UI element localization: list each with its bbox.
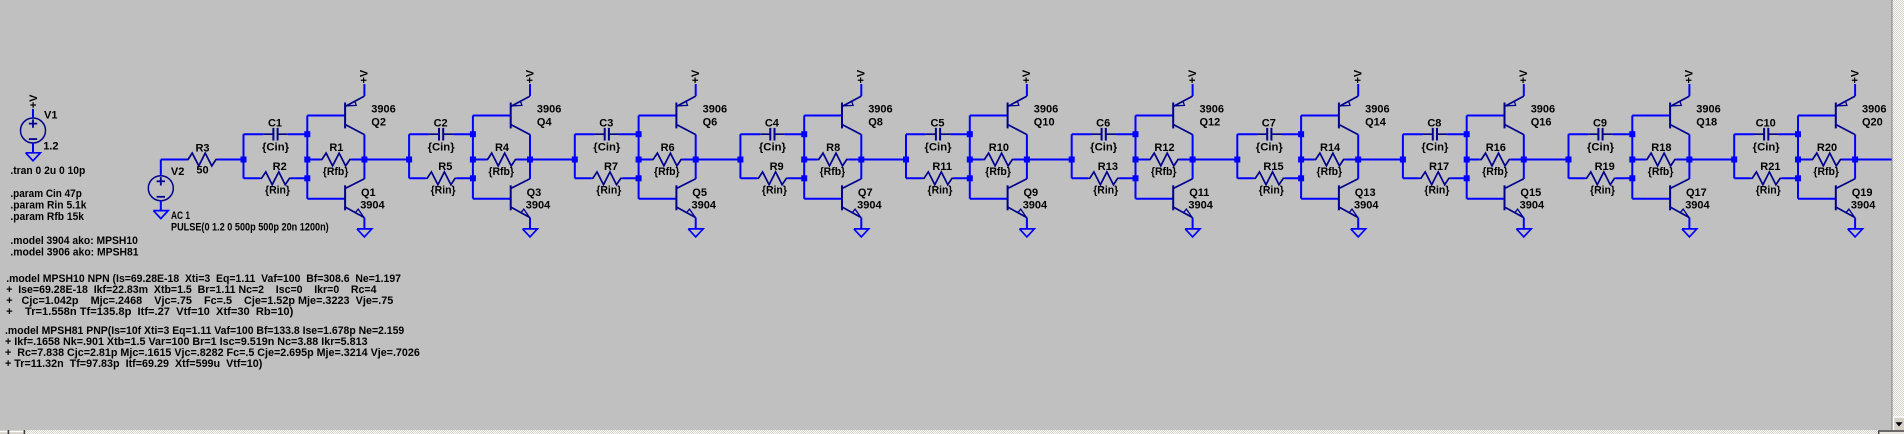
- svg-text:{Rfb}: {Rfb}: [820, 166, 846, 178]
- svg-text:3906: 3906: [868, 103, 892, 115]
- svg-text:+V: +V: [1849, 69, 1861, 83]
- svg-text:+V: +V: [1353, 69, 1365, 83]
- svg-text:{Cin}: {Cin}: [925, 141, 953, 153]
- svg-text:R8: R8: [826, 142, 840, 154]
- svg-text:R12: R12: [1154, 142, 1174, 154]
- svg-text:{Rin}: {Rin}: [1093, 184, 1119, 196]
- svg-text:C9: C9: [1593, 118, 1607, 130]
- svg-text:Q13: Q13: [1355, 187, 1376, 199]
- svg-text:C1: C1: [268, 118, 282, 130]
- svg-text:{Cin}: {Cin}: [1421, 141, 1449, 153]
- svg-text:+V: +V: [1021, 69, 1033, 83]
- svg-text:{Cin}: {Cin}: [262, 141, 290, 153]
- svg-text:3904: 3904: [857, 199, 882, 211]
- svg-text:{Rin}: {Rin}: [1590, 184, 1616, 196]
- svg-text:R13: R13: [1098, 161, 1118, 173]
- svg-text:R14: R14: [1320, 142, 1341, 154]
- svg-text:+V: +V: [1684, 69, 1696, 83]
- svg-text:3904: 3904: [1520, 199, 1545, 211]
- svg-text:R11: R11: [932, 161, 952, 173]
- svg-text:.model 3904 ako: MPSH10: .model 3904 ako: MPSH10: [10, 235, 137, 247]
- svg-text:+V: +V: [28, 94, 40, 108]
- svg-text:Q4: Q4: [537, 116, 553, 128]
- svg-text:Q18: Q18: [1696, 116, 1717, 128]
- svg-text:{Cin}: {Cin}: [593, 141, 621, 153]
- svg-text:C3: C3: [599, 118, 613, 130]
- svg-text:{Rfb}: {Rfb}: [1482, 166, 1508, 178]
- svg-text:Q8: Q8: [868, 116, 883, 128]
- svg-text:.model 3906 ako: MPSH81: .model 3906 ako: MPSH81: [10, 247, 138, 259]
- svg-text:{Rin}: {Rin}: [596, 184, 622, 196]
- svg-text:3906: 3906: [1531, 103, 1555, 115]
- svg-text:{Rin}: {Rin}: [762, 184, 788, 196]
- svg-text:Q19: Q19: [1852, 187, 1873, 199]
- svg-text:Q16: Q16: [1531, 116, 1552, 128]
- svg-text:{Cin}: {Cin}: [1753, 141, 1781, 153]
- svg-text:.tran 0 2u 0 10p: .tran 0 2u 0 10p: [10, 165, 85, 177]
- svg-text:C5: C5: [930, 118, 944, 130]
- svg-text:.param Rin 5.1k: .param Rin 5.1k: [10, 199, 87, 211]
- svg-text:{Rfb}: {Rfb}: [1813, 166, 1839, 178]
- svg-text:C2: C2: [434, 118, 448, 130]
- svg-text:R10: R10: [989, 142, 1009, 154]
- svg-text:R3: R3: [195, 143, 209, 155]
- svg-text:+ Tr=1.558n Tf=135.8p Itf=: + Tr=1.558n Tf=135.8p Itf=.27 Vtf=10 Xtf…: [6, 306, 293, 318]
- svg-text:{Cin}: {Cin}: [1090, 141, 1118, 153]
- svg-text:.param Rfb 15k: .param Rfb 15k: [10, 211, 84, 223]
- svg-text:R15: R15: [1263, 161, 1283, 173]
- svg-text:Q3: Q3: [527, 187, 542, 199]
- svg-text:{Cin}: {Cin}: [428, 141, 456, 153]
- svg-text:{Rfb}: {Rfb}: [323, 166, 349, 178]
- svg-text:R4: R4: [495, 142, 510, 154]
- svg-text:{Rin}: {Rin}: [1259, 184, 1285, 196]
- svg-text:R19: R19: [1595, 161, 1615, 173]
- svg-text:R5: R5: [438, 161, 452, 173]
- svg-text:{Rin}: {Rin}: [928, 184, 954, 196]
- svg-text:{Rfb}: {Rfb}: [1648, 166, 1674, 178]
- svg-text:Q7: Q7: [858, 187, 873, 199]
- svg-text:Q2: Q2: [371, 116, 386, 128]
- svg-text:{Cin}: {Cin}: [759, 141, 787, 153]
- svg-text:3904: 3904: [1188, 199, 1213, 211]
- svg-text:+V: +V: [359, 69, 371, 83]
- svg-text:{Rfb}: {Rfb}: [1151, 166, 1177, 178]
- svg-text:Q9: Q9: [1024, 187, 1039, 199]
- svg-text:1.2: 1.2: [43, 141, 58, 153]
- svg-text:R2: R2: [273, 161, 287, 173]
- svg-text:+V: +V: [1187, 69, 1199, 83]
- svg-text:{Rin}: {Rin}: [265, 184, 291, 196]
- svg-text:{Rfb}: {Rfb}: [488, 166, 514, 178]
- svg-text:Q5: Q5: [692, 187, 707, 199]
- svg-text:C6: C6: [1096, 118, 1110, 130]
- svg-text:Q20: Q20: [1862, 116, 1883, 128]
- svg-text:3906: 3906: [537, 103, 561, 115]
- svg-text:Q10: Q10: [1034, 116, 1055, 128]
- svg-text:50: 50: [196, 164, 208, 176]
- svg-text:3906: 3906: [703, 103, 727, 115]
- svg-text:3904: 3904: [1354, 199, 1379, 211]
- svg-text:+ Ikf=.1658 Nk=.901 Xtb=1.5 Va: + Ikf=.1658 Nk=.901 Xtb=1.5 Var=100 Br=1…: [5, 336, 368, 348]
- svg-text:Q12: Q12: [1200, 116, 1221, 128]
- svg-text:C4: C4: [765, 118, 780, 130]
- svg-text:R9: R9: [770, 161, 784, 173]
- svg-text:+V: +V: [690, 69, 702, 83]
- svg-text:C7: C7: [1262, 118, 1276, 130]
- svg-text:3906: 3906: [1365, 103, 1389, 115]
- svg-text:+V: +V: [1518, 69, 1530, 83]
- svg-text:AC 1: AC 1: [171, 210, 190, 222]
- svg-text:R1: R1: [329, 142, 343, 154]
- svg-text:C8: C8: [1427, 118, 1441, 130]
- svg-text:+ Tr=11.32n Tf=97.83p Itf=69: + Tr=11.32n Tf=97.83p Itf=69.29 Xtf=599u…: [5, 358, 263, 370]
- svg-text:R21: R21: [1760, 161, 1780, 173]
- svg-text:Q6: Q6: [703, 116, 718, 128]
- svg-text:{Rfb}: {Rfb}: [654, 166, 680, 178]
- svg-text:3904: 3904: [360, 199, 385, 211]
- svg-text:3904: 3904: [526, 199, 551, 211]
- svg-text:R7: R7: [604, 161, 618, 173]
- svg-text:3906: 3906: [1696, 103, 1720, 115]
- svg-text:Q11: Q11: [1189, 187, 1209, 199]
- svg-text:+V: +V: [856, 69, 868, 83]
- svg-text:Q1: Q1: [361, 187, 376, 199]
- svg-text:{Rfb}: {Rfb}: [1317, 166, 1343, 178]
- svg-text:3904: 3904: [1023, 199, 1048, 211]
- svg-text:3904: 3904: [1685, 199, 1710, 211]
- svg-text:3906: 3906: [1200, 103, 1224, 115]
- svg-text:{Cin}: {Cin}: [1256, 141, 1284, 153]
- svg-text:PULSE(0 1.2 0 500p 500p 20n 12: PULSE(0 1.2 0 500p 500p 20n 1200n): [171, 221, 329, 233]
- svg-text:{Rin}: {Rin}: [1756, 184, 1782, 196]
- svg-text:.param Cin 47p: .param Cin 47p: [10, 188, 82, 200]
- svg-text:V2: V2: [171, 166, 184, 178]
- svg-text:C10: C10: [1756, 118, 1776, 130]
- svg-text:3904: 3904: [692, 199, 717, 211]
- svg-text:V1: V1: [44, 110, 57, 122]
- svg-text:R17: R17: [1429, 161, 1449, 173]
- svg-text:R16: R16: [1486, 142, 1506, 154]
- svg-text:{Cin}: {Cin}: [1587, 141, 1615, 153]
- svg-text:{Rin}: {Rin}: [1424, 184, 1450, 196]
- svg-text:3906: 3906: [371, 103, 395, 115]
- svg-text:3906: 3906: [1034, 103, 1058, 115]
- svg-text:3906: 3906: [1862, 103, 1886, 115]
- svg-text:{Rin}: {Rin}: [431, 184, 457, 196]
- svg-text:R18: R18: [1651, 142, 1671, 154]
- svg-text:+V: +V: [524, 69, 536, 83]
- svg-text:Q15: Q15: [1520, 187, 1541, 199]
- svg-text:R6: R6: [661, 142, 675, 154]
- svg-text:3904: 3904: [1851, 199, 1876, 211]
- svg-text:Q14: Q14: [1365, 116, 1387, 128]
- svg-text:Q17: Q17: [1686, 187, 1707, 199]
- svg-text:{Rfb}: {Rfb}: [985, 166, 1011, 178]
- svg-text:R20: R20: [1817, 142, 1837, 154]
